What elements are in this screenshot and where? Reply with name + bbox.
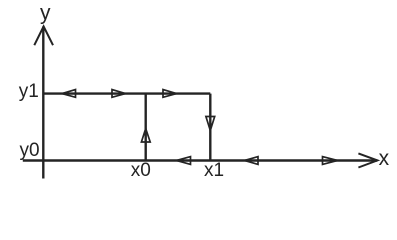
y-axis [42, 27, 44, 179]
x-axis arrowhead [358, 153, 377, 167]
svg-text:x0: x0 [131, 160, 151, 181]
svg-text:y1: y1 [19, 81, 39, 102]
arrow left inner on x-axis [177, 157, 191, 165]
wire x0 vertical segment [144, 94, 146, 161]
arrow down on x1 segment [206, 117, 215, 131]
svg-text:y: y [40, 2, 51, 25]
svg-text:x1: x1 [204, 160, 224, 181]
y-axis arrowhead [34, 26, 53, 45]
arrow right on x-axis [323, 157, 338, 165]
wire x1 vertical segment [209, 94, 211, 161]
wire y1 horizontal segment [43, 92, 210, 94]
svg-text:x: x [379, 147, 390, 170]
arrow up on x0 segment [141, 129, 150, 143]
arrow right mid on y1 segment [112, 90, 126, 98]
svg-text:y0: y0 [20, 140, 40, 161]
arrow left on y1 segment [62, 90, 76, 98]
x-axis [23, 159, 377, 161]
arrow left outer on x-axis [245, 157, 259, 165]
arrow right outer on y1 segment [163, 90, 177, 98]
